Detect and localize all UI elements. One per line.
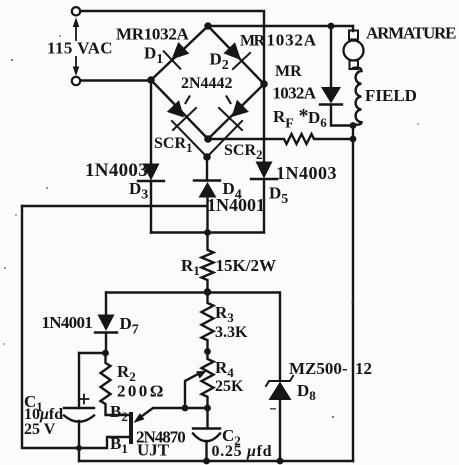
svg-text:UJT: UJT [137,441,170,460]
svg-text:MR: MR [240,33,266,50]
svg-text:25K: 25K [215,378,244,395]
svg-text:1032A: 1032A [267,31,317,50]
svg-text:B2: B2 [110,402,128,424]
svg-text:ARMATURE: ARMATURE [366,24,456,43]
svg-text:115 VAC: 115 VAC [47,39,113,58]
svg-text:1032A: 1032A [273,84,317,103]
svg-text:*: * [299,105,309,127]
svg-text:D3: D3 [129,179,148,203]
svg-text:D6: D6 [308,108,327,130]
svg-text:1N4001: 1N4001 [42,313,93,332]
svg-text:R4: R4 [215,358,234,380]
svg-text:3.3K: 3.3K [215,324,248,341]
svg-text:MR: MR [275,63,302,80]
svg-text:D8: D8 [297,381,316,403]
svg-text:MR1032A: MR1032A [116,25,190,44]
svg-text:RF: RF [273,107,294,132]
svg-text:2N4442: 2N4442 [181,75,233,92]
svg-text:12: 12 [355,359,372,378]
svg-text:1N4003: 1N4003 [276,163,337,183]
svg-text:25 V: 25 V [24,421,56,438]
svg-text:1N4001: 1N4001 [207,195,265,215]
svg-text:R3: R3 [215,303,234,325]
svg-text:200Ω: 200Ω [117,382,166,401]
svg-text:1N4003: 1N4003 [85,160,148,181]
svg-text:SCR1: SCR1 [154,135,193,155]
svg-text:SCR2: SCR2 [224,142,263,162]
svg-text:D7: D7 [120,314,139,338]
svg-text:FIELD: FIELD [365,86,417,105]
svg-text:D5: D5 [269,184,288,208]
svg-text:MZ500-: MZ500- [289,359,348,378]
svg-text:R1: R1 [181,256,200,278]
svg-text:0.25 μfd: 0.25 μfd [212,443,273,460]
svg-text:15K/2W: 15K/2W [216,256,276,275]
svg-text:D1: D1 [144,44,163,68]
